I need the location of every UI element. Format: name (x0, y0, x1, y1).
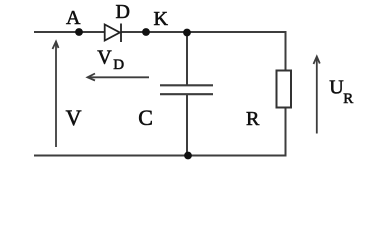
U_R arrow (314, 57, 320, 134)
node capacitor-top junction (183, 29, 191, 37)
svg-text:U: U (329, 77, 344, 99)
wire diode-to-corner segment (121, 31, 286, 33)
svg-text:K: K (154, 8, 169, 30)
svg-text:C: C (138, 105, 153, 130)
V source arrow (53, 42, 59, 148)
wire resistor to bottom (285, 108, 287, 156)
svg-text:V: V (97, 46, 112, 68)
svg-text:V: V (66, 105, 82, 130)
svg-text:D: D (116, 1, 130, 23)
svg-text:A: A (66, 7, 81, 29)
svg-text:R: R (246, 108, 260, 130)
V_D arrow (88, 74, 150, 81)
node K (142, 28, 150, 36)
wire top-left segment (34, 31, 105, 33)
wire right drop to resistor (285, 31, 287, 71)
node A (75, 28, 83, 36)
wire bottom rail (34, 155, 287, 157)
wire capacitor top lead (186, 32, 188, 85)
svg-text:D: D (113, 57, 124, 73)
diode D (105, 24, 121, 43)
resistor R body (277, 71, 292, 108)
svg-text:R: R (343, 91, 353, 107)
wire capacitor bottom lead (186, 95, 188, 156)
node bottom junction (184, 152, 192, 160)
capacitor C plates (160, 85, 213, 94)
